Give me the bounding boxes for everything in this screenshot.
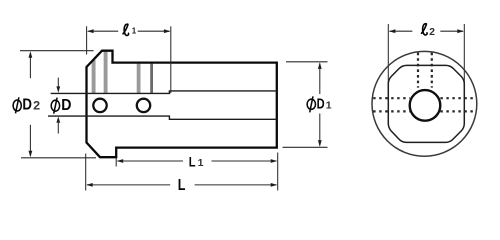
svg-text:D: D (61, 97, 71, 114)
svg-text:D: D (22, 97, 32, 114)
svg-text:2: 2 (429, 27, 435, 38)
svg-text:1: 1 (326, 99, 332, 111)
svg-text:1: 1 (198, 157, 204, 169)
svg-text:2: 2 (33, 99, 40, 113)
svg-text:L: L (189, 153, 196, 169)
svg-text:L: L (178, 177, 186, 194)
svg-text:D: D (317, 96, 325, 112)
svg-text:1: 1 (132, 26, 137, 35)
